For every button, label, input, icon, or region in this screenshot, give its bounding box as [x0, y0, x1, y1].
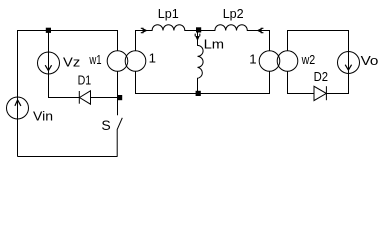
arrow of source Vo (down): [345, 65, 351, 70]
diode D1 (pointing left): triangle: [80, 91, 91, 104]
wire: D1 to junction J2: [91, 97, 118, 99]
node junction J4 (bottom, Lm tap): [196, 91, 201, 96]
svg-text:1: 1: [249, 52, 256, 67]
svg-text:D2: D2: [314, 69, 328, 84]
wire: right transformer w2 top, top right wire, down through Vo to bottom right corner: [288, 31, 349, 94]
arrow down on Lm branch: [196, 36, 200, 40]
wire: w1 coil bottom down to switch top contact: [117, 72, 119, 116]
diode D2 cathode bar: [325, 86, 327, 100]
arrow of source Vz (down): [45, 65, 51, 70]
arrow right on wire before Lp1: [143, 29, 147, 33]
voltage source Vz (circle): [38, 52, 60, 74]
svg-text:1: 1: [149, 51, 156, 66]
wire: Vz branch vertical and left part of D1 wire: [49, 31, 80, 98]
transformer right: coil circle w2 side: [277, 51, 298, 72]
svg-text:Vz: Vz: [63, 55, 80, 70]
switch S blade and bottom wire: [117, 118, 122, 157]
svg-text:Vo: Vo: [361, 53, 379, 68]
voltage source Vin (circle): [7, 97, 29, 119]
svg-text:w1: w1: [89, 52, 102, 67]
wire: left loop (left vertical, top wire, down to w1 coil top): [18, 31, 118, 157]
node junction J3 (top, Lm tap): [196, 27, 201, 32]
svg-text:D1: D1: [78, 73, 92, 88]
svg-text:Vin: Vin: [33, 108, 53, 123]
arrow of source Vin (up): [15, 100, 21, 106]
diode D1 cathode bar: [78, 91, 80, 104]
node junction J1 on top wire: [46, 28, 51, 33]
voltage source Vo (circle): [338, 52, 360, 74]
transformer left: coil circle 1 side: [125, 51, 146, 72]
svg-text:Lp1: Lp1: [158, 6, 179, 21]
arrow left on wire after Lp2: [257, 29, 261, 33]
inductor Lm (vertical coil): [198, 32, 204, 94]
svg-text:w2: w2: [301, 52, 315, 67]
svg-text:Lp2: Lp2: [223, 6, 244, 21]
node junction J2 (D1 wire meets switch branch): [117, 95, 122, 100]
wire: bottom middle connecting transformer bottoms: [136, 72, 270, 94]
transformer right: coil circle 1 side: [259, 51, 280, 72]
svg-text:S: S: [101, 117, 110, 133]
wire: w2 bottom down and left part of D2 wire: [288, 72, 315, 94]
wire: left transformer secondary up, through Lp1 coil and Lp2 coil to right transformer: [136, 25, 270, 51]
transformer left: coil circle w1 side: [107, 51, 128, 72]
wire: left loop bottom: [18, 156, 118, 158]
diode D2 (pointing right): triangle: [314, 86, 326, 100]
svg-text:Lm: Lm: [204, 37, 225, 52]
